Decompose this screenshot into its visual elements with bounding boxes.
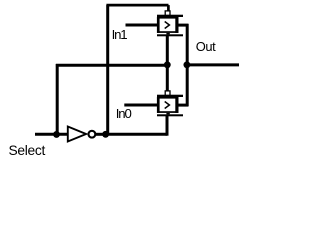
wire upper buffer output elbow <box>178 24 189 27</box>
wire inverted select vertical riser to top <box>106 5 109 134</box>
wire enable vertical between buffers <box>166 35 169 92</box>
wire inverter output stub <box>96 133 107 136</box>
wire select horizontal to enable node <box>56 64 168 67</box>
inverter U3 <box>68 127 96 142</box>
svg-text:Select: Select <box>9 143 46 158</box>
wire top horizontal to upper buffer enable <box>106 5 168 11</box>
wire Select input segment <box>35 133 67 136</box>
wire Out segment <box>187 63 239 66</box>
label Select <box>9 143 46 158</box>
svg-text:In1: In1 <box>112 27 128 42</box>
svg-text:Out: Out <box>196 39 216 54</box>
wire inverted select horizontal to lower buffer <box>106 133 167 136</box>
label Out <box>196 39 216 54</box>
wire select vertical riser <box>56 64 59 134</box>
node enable junction dot <box>164 61 171 68</box>
node output junction dot <box>183 61 190 68</box>
tri-state buffer U2 <box>157 91 183 116</box>
node select junction dot <box>53 131 60 138</box>
wire inverted select riser to lower buffer bottom bar <box>166 116 169 136</box>
label In0 <box>116 106 132 121</box>
label In1 <box>112 27 128 42</box>
wire In0 input segment <box>124 104 158 107</box>
svg-text:In0: In0 <box>116 106 132 121</box>
tri-state buffer U1 <box>157 11 183 36</box>
wire lower buffer output elbow <box>178 104 189 107</box>
wire output vertical joining buffer outputs <box>186 24 189 106</box>
wire In1 input segment <box>126 24 159 27</box>
node inverted select junction dot <box>102 131 109 138</box>
